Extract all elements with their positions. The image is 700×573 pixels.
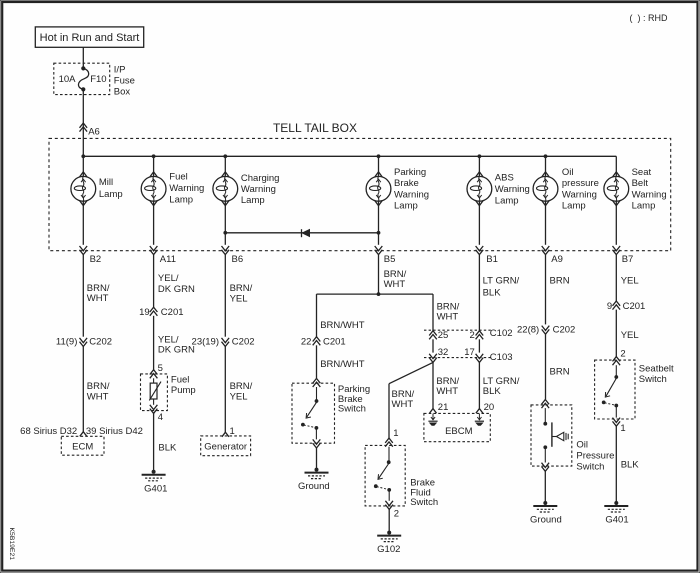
svg-text:22: 22 [301,337,312,348]
svg-text:I/P: I/P [114,65,126,76]
connector C102 [424,329,493,331]
svg-text:BRN/WHT: BRN/WHT [320,320,365,331]
svg-text:BLK: BLK [158,443,177,454]
svg-text:B1: B1 [486,254,498,265]
svg-text:1: 1 [393,428,398,439]
brake fluid switch pin 1 [385,438,393,447]
svg-text:1: 1 [230,426,235,437]
svg-text:ECM: ECM [72,442,93,453]
svg-text:2: 2 [470,330,475,341]
seatbelt switch contacts [615,365,617,377]
svg-text:C103: C103 [490,352,513,363]
svg-text:WHT: WHT [384,279,406,290]
wires bus to lamps [82,156,84,176]
lamp Seat Belt Warning Lamp [613,172,620,177]
svg-text:Warning: Warning [562,189,597,200]
node bus-6 [544,154,548,158]
wire fuel pump to G401 [153,413,155,471]
ground G102 [387,531,391,535]
svg-text:Lamp: Lamp [241,195,265,206]
svg-text:32: 32 [438,347,449,358]
wire from Hot box to fuse [82,47,84,68]
ground Ground [315,468,319,472]
svg-text:Seat: Seat [632,167,652,178]
svg-text:TELL TAIL BOX: TELL TAIL BOX [273,121,357,135]
ground G401 [614,501,618,505]
svg-text:22(8): 22(8) [517,324,539,335]
fuel sender resistor [153,378,155,383]
fuel pump pin 4 [150,405,158,414]
svg-text:39 Sirius D42: 39 Sirius D42 [86,426,143,437]
fuse F10 10A [81,66,85,70]
svg-text:25: 25 [438,330,449,341]
EBCM box [424,413,490,441]
svg-text:Warning: Warning [495,184,530,195]
wire C202 to generator [224,347,226,433]
svg-text:Lamp: Lamp [99,189,123,200]
svg-text:K5B19E21: K5B19E21 [8,528,15,561]
seatbelt switch entry pin 2 [613,357,621,366]
connector C202 col3 [222,338,230,347]
svg-text:Charging: Charging [241,173,280,184]
svg-text:G401: G401 [144,483,167,494]
svg-text:C201: C201 [623,301,646,312]
column 1: wire B2 to C202 [82,255,84,337]
svg-text:B2: B2 [90,254,102,265]
svg-text:WHT: WHT [392,399,414,410]
svg-text:C102: C102 [490,328,513,339]
svg-text:19: 19 [139,307,150,318]
parking brake switch box [292,383,335,443]
svg-text:23(19): 23(19) [192,337,219,348]
lamp Fuel Warning Lamp [150,172,157,177]
svg-text:YEL: YEL [621,330,639,341]
connector A6 [80,123,88,132]
svg-text:Ground: Ground [530,515,562,526]
wire C201 to fuel pump [153,316,155,370]
svg-text:11(9): 11(9) [56,337,77,348]
lamp ABS Warning Lamp [476,172,483,177]
svg-text:Pressure: Pressure [576,451,614,462]
svg-text:C201: C201 [161,307,184,318]
lamp Charging Warning Lamp [222,172,229,177]
svg-text:Warning: Warning [394,189,429,200]
connector C202 col6 [542,326,550,335]
svg-text:C202: C202 [232,337,255,348]
svg-text:B7: B7 [622,254,634,265]
svg-text:BLK: BLK [621,459,640,470]
svg-text:BLK: BLK [483,288,502,299]
svg-text:Switch: Switch [576,462,604,473]
wires C103 to EBCM pins [432,362,434,408]
diode branch wire between charging and parking columns [225,232,378,234]
svg-text:A6: A6 [88,126,100,137]
svg-text:A9: A9 [551,254,563,265]
ground Ground [543,501,547,505]
svg-text:WHT: WHT [436,386,458,397]
svg-text:Box: Box [114,86,131,97]
svg-text:Switch: Switch [410,497,438,508]
ECM box [61,436,104,455]
wires C102 to C103 [432,339,434,352]
svg-text:Pump: Pump [171,385,196,396]
svg-text:4: 4 [158,412,163,423]
svg-text:1: 1 [620,423,625,434]
svg-text:Parking: Parking [394,167,426,178]
tell tail box bottom pin connectors [80,246,88,255]
diagonal wire C103 to brake fluid switch [389,362,433,383]
svg-text:Ground: Ground [298,481,330,492]
lamp Mill Lamp [80,172,87,177]
wire C201 to seatbelt switch [615,310,617,357]
svg-text:Fuse: Fuse [114,76,135,87]
svg-text:21: 21 [438,402,449,413]
node bus-4 [377,154,381,158]
brake fluid switch contacts [388,447,390,463]
node diode-left [223,231,227,235]
wire to ground [316,448,318,470]
svg-text:BRN/: BRN/ [230,283,253,294]
svg-text:Lamp: Lamp [169,194,193,205]
svg-text:BRN: BRN [550,366,570,377]
oil pressure switch entry [542,400,550,409]
parking brake switch contacts [316,387,318,401]
svg-text:YEL: YEL [230,293,248,304]
svg-text:Mill: Mill [99,177,113,188]
wire to ground [544,471,546,503]
split wire horizontal [317,293,434,295]
wire C202 to oil pressure switch [545,334,547,399]
svg-text:A11: A11 [160,254,176,265]
svg-text:10A: 10A [59,74,77,85]
svg-text:pressure: pressure [562,178,599,189]
svg-text:68 Sirius D32: 68 Sirius D32 [20,426,77,437]
svg-text:Warning: Warning [169,183,204,194]
svg-text:YEL/: YEL/ [158,273,179,284]
svg-text:20: 20 [484,402,495,413]
oil pressure switch box [531,405,572,466]
right branch to EBCM via C102/C103 [432,294,434,331]
svg-text:2: 2 [394,509,399,520]
wires lamps to box bottom [82,201,84,245]
connector C201 col4 [313,337,321,346]
connector C201 col2 [150,307,158,316]
fuel pump box [141,374,168,411]
column 6: wire A9 to C202 [545,255,547,325]
svg-text:Belt: Belt [632,178,649,189]
seatbelt switch box [595,360,635,419]
lamp Parking Brake Warning Lamp [375,172,382,177]
generator pin 1 [222,432,229,437]
svg-text:DK GRN: DK GRN [158,345,195,356]
TELL TAIL BOX dashed enclosure [49,138,671,250]
svg-text:( ) : RHD: ( ) : RHD [630,13,668,23]
svg-text:YEL: YEL [621,276,639,287]
svg-text:Warning: Warning [632,189,667,200]
column 5: wire B1 to C102 [478,255,480,331]
node bus-5 [478,154,482,158]
svg-text:C202: C202 [89,337,112,348]
svg-text:BRN: BRN [550,276,570,287]
connector C202 col1 [80,338,88,347]
svg-text:Generator: Generator [204,441,247,452]
svg-text:Warning: Warning [241,184,276,195]
oil pressure switch contacts [544,408,546,424]
brake fluid switch box [365,445,405,506]
svg-text:WHT: WHT [87,293,109,304]
node bus-2 [152,154,156,158]
svg-text:Oil: Oil [562,167,574,178]
svg-text:BRN/WHT: BRN/WHT [320,359,365,370]
svg-text:C201: C201 [323,337,346,348]
svg-text:Brake: Brake [394,178,419,189]
svg-text:Switch: Switch [639,374,667,385]
svg-text:Fuel: Fuel [169,171,187,182]
svg-text:G102: G102 [377,544,400,555]
svg-text:G401: G401 [605,515,628,526]
node bus-1 [81,154,85,158]
svg-text:17: 17 [464,347,475,358]
svg-text:Lamp: Lamp [562,201,586,212]
ground G401 [152,470,156,474]
svg-text:Oil: Oil [576,439,588,450]
left branch to parking brake switch [316,294,318,337]
lamp Oil pressure Warning Lamp [542,172,549,177]
svg-text:WHT: WHT [87,392,109,403]
power source box: Hot in Run and Start [35,27,143,47]
svg-text:ABS: ABS [495,172,514,183]
svg-text:C202: C202 [553,324,576,335]
svg-text:B6: B6 [232,254,244,265]
column 3: wire B6 to C202 [224,255,226,337]
svg-text:Lamp: Lamp [394,201,418,212]
svg-text:LT GRN/: LT GRN/ [483,276,520,287]
ECM pins 68/39 [80,432,87,437]
svg-text:EBCM: EBCM [445,426,473,437]
svg-text:BLK: BLK [483,386,502,397]
svg-text:WHT: WHT [437,311,459,322]
EBCM internal ground pin21 [432,414,434,420]
svg-text:2: 2 [620,349,625,360]
node B5-split [377,292,381,296]
node diode-right [377,231,381,235]
connector C103 [424,357,493,359]
wire C202 to ECM [82,347,84,432]
svg-text:5: 5 [158,363,163,374]
svg-text:F10: F10 [90,74,106,85]
fuse box dashed (I/P Fuse Box) [54,63,110,94]
node bus-3 [223,154,227,158]
svg-text:DK GRN: DK GRN [158,284,195,295]
svg-text:9: 9 [607,301,612,312]
EBCM pins 21 / 20 [430,409,437,414]
wire to G102 [388,509,390,532]
wire fuse to tell tail box [82,89,84,156]
svg-text:Switch: Switch [338,404,366,415]
fuel pump pin 5 [150,370,158,379]
svg-text:Lamp: Lamp [495,195,519,206]
column 7: wire B7 to C201 [615,255,617,301]
svg-text:Lamp: Lamp [632,201,656,212]
column 4: wire B5 down to split [378,255,380,295]
wire to G401 [615,426,617,503]
svg-text:YEL: YEL [230,392,248,403]
svg-text:Hot in Run and Start: Hot in Run and Start [40,32,140,44]
bus wire across tell tail box [83,155,616,157]
diode (points left) [301,229,303,237]
column 2: wire A11 to C201 [153,255,155,308]
parking brake switch entry [313,378,321,387]
generator box [201,436,251,456]
svg-text:B5: B5 [384,254,396,265]
connector C201 col7 [613,301,621,310]
